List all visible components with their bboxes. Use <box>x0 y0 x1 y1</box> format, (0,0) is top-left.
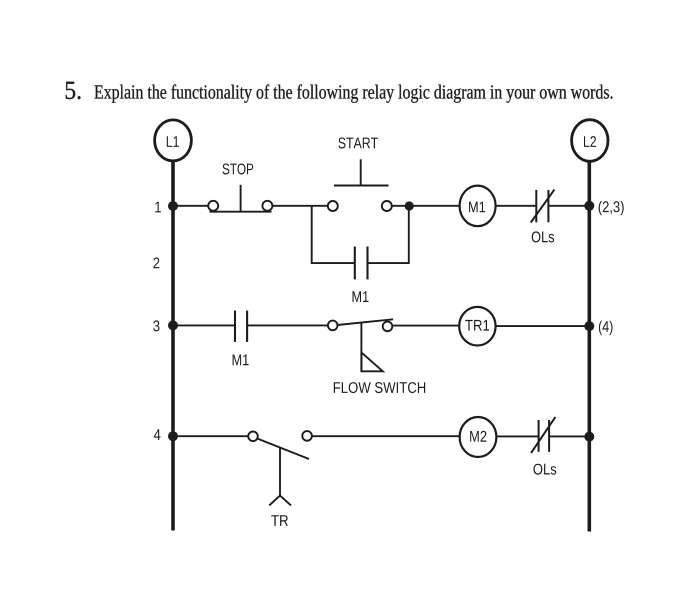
wire TR contact to M2 coil <box>312 435 460 437</box>
wire STOP to START <box>272 205 327 207</box>
wire rail to M1 contact <box>173 324 235 326</box>
wire START to M1 coil <box>392 205 460 207</box>
node 1 label <box>155 202 161 213</box>
wire TR1 coil to right rail <box>496 325 590 327</box>
contact M1 rung3 (NO) <box>233 311 249 366</box>
wire rail to TR contact <box>173 435 248 437</box>
wire OLs to right rail rung4 <box>549 435 589 437</box>
node (2,3) label <box>599 201 624 215</box>
junction dot rung4 right rail <box>584 432 594 442</box>
question title text <box>95 84 613 102</box>
wire M1 contact to flow switch <box>247 324 328 326</box>
node 3 label <box>153 320 159 331</box>
coil TR1 <box>459 307 495 346</box>
L1 terminal <box>155 120 192 161</box>
wire OLs to right rail <box>548 205 589 207</box>
junction dot after START <box>405 201 414 210</box>
wire flow switch to TR1 coil <box>392 325 459 327</box>
L2 terminal <box>572 120 608 162</box>
node (4) label <box>599 321 613 335</box>
junction dot rung4 left rail <box>168 431 178 441</box>
wire M2 coil to OLs <box>496 435 538 437</box>
timed contact TR (NO) <box>248 431 312 526</box>
node 2 label <box>153 258 159 269</box>
junction dot rung3 right rail <box>584 321 594 331</box>
junction dot rung1 right rail <box>584 201 594 211</box>
coil M2 <box>460 417 497 457</box>
wire rail to STOP <box>173 205 208 207</box>
pushbutton START (NO) <box>328 138 392 212</box>
wire M1 coil to OLs <box>496 205 537 207</box>
right rail wire <box>587 161 591 531</box>
flow switch <box>328 319 425 393</box>
overload contact OLs rung1 <box>531 190 555 243</box>
pushbutton STOP (NC) <box>208 164 272 212</box>
coil M1 <box>460 186 496 227</box>
junction dot rung1 left rail <box>168 201 178 211</box>
wire branch down left (rung2) <box>312 206 355 263</box>
node 4 label <box>154 429 161 440</box>
contact M1 parallel (rung 2) <box>353 247 369 303</box>
wire branch up right (rung2) <box>368 206 409 263</box>
junction dot rung3 left rail <box>168 320 178 330</box>
question number 5. <box>66 82 81 99</box>
left rail wire <box>171 161 175 531</box>
overload contact OLs rung4 <box>531 417 556 475</box>
